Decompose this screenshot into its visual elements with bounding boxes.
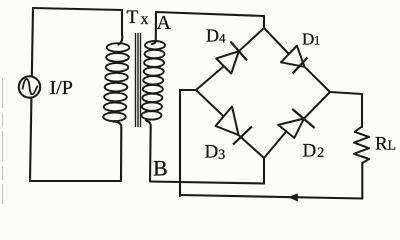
wire left output drop	[179, 90, 181, 196]
wire secondary top (node A drop)	[152, 12, 156, 44]
label D1	[302, 30, 320, 49]
svg-text:L: L	[388, 139, 397, 154]
wire top rail secondary to bridge	[156, 12, 264, 28]
svg-text:B: B	[153, 156, 168, 181]
resistor RL	[354, 127, 369, 164]
label Tx	[127, 7, 149, 28]
wire bottom rail B to bridge bottom	[150, 182, 264, 184]
wire bottom output rail	[180, 195, 362, 199]
svg-text:3: 3	[218, 147, 225, 163]
ac source I/P	[19, 76, 40, 97]
wire left rail	[30, 8, 33, 181]
svg-text:R: R	[375, 134, 388, 155]
wire bridge left stub	[180, 89, 196, 91]
transformer primary winding	[103, 43, 129, 121]
svg-text:4: 4	[219, 31, 226, 46]
svg-text:D: D	[206, 26, 219, 46]
wire bridge right stub	[330, 92, 362, 127]
svg-text:1: 1	[314, 34, 320, 48]
scan artifact left edge	[2, 78, 4, 204]
diode D1	[264, 28, 330, 92]
diode D3	[196, 90, 264, 158]
wire resistor bottom lead	[361, 163, 363, 199]
diode D4	[196, 28, 264, 90]
svg-text:D: D	[205, 142, 219, 163]
wire bridge bottom riser	[263, 158, 265, 184]
diode D2	[264, 92, 330, 158]
transformer core	[136, 33, 141, 127]
wire primary bottom drop	[113, 122, 121, 182]
svg-text:D: D	[302, 30, 314, 49]
wire top rail primary	[33, 8, 122, 10]
label D4	[206, 26, 226, 46]
wire secondary bottom (node B drop)	[146, 121, 151, 182]
label D2	[303, 141, 325, 162]
svg-text:T: T	[127, 7, 139, 28]
transformer secondary winding	[142, 41, 166, 120]
svg-text:x: x	[141, 11, 149, 28]
label RL	[375, 134, 396, 155]
svg-text:A: A	[157, 12, 172, 34]
label D3	[205, 142, 226, 164]
svg-text:I/P: I/P	[50, 77, 73, 99]
wire bottom rail primary	[30, 180, 121, 182]
svg-text:2: 2	[317, 145, 324, 161]
current arrow	[288, 193, 298, 201]
wire primary top drop	[119, 10, 123, 45]
svg-text:D: D	[303, 141, 317, 162]
